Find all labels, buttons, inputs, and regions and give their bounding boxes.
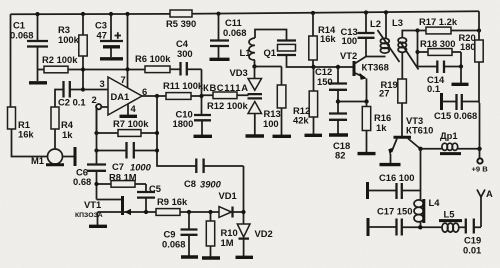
capacitor C7	[94, 142, 159, 173]
resistor R11	[163, 80, 204, 99]
antenna A	[477, 188, 493, 227]
wire pin3	[83, 89, 108, 91]
resistor R7	[94, 118, 159, 136]
capacitor C19	[463, 219, 481, 256]
capacitor C17	[368, 206, 442, 237]
capacitor C2	[55, 81, 86, 108]
capacitor C10	[173, 69, 213, 136]
capacitor C12	[315, 66, 347, 114]
ground C1/R2	[29, 81, 47, 84]
inductor L4	[414, 197, 440, 227]
wire pin7 column	[125, 12, 129, 88]
wire emitter node line	[338, 101, 367, 103]
resistor R5	[166, 10, 196, 29]
microphone M1	[31, 147, 75, 166]
transistor VT1	[75, 196, 156, 219]
capacitor C8	[184, 159, 244, 190]
wire top rail left segment	[11, 13, 171, 15]
resistor R3	[58, 12, 87, 90]
resistor R2	[38, 54, 146, 73]
resistor R19	[379, 79, 406, 136]
diode VD2	[236, 224, 273, 257]
transistor VT3	[380, 115, 434, 165]
resistor R17	[415, 16, 481, 34]
inductor L3	[392, 17, 419, 79]
inductor L5	[439, 209, 466, 233]
wire left border down to R1	[10, 14, 12, 107]
crystal Q1	[264, 41, 314, 68]
resistor R1	[8, 107, 35, 140]
capacitor C4	[176, 38, 202, 76]
wire collector to L4	[420, 149, 422, 200]
resistor R20	[459, 11, 484, 103]
wire R1 to microphone	[12, 129, 48, 157]
diode VD1	[219, 190, 244, 218]
capacitor C15	[434, 93, 479, 121]
resistor R9	[156, 196, 219, 215]
resistor R12 100k	[202, 92, 249, 111]
resistor R14	[309, 11, 337, 67]
capacitor C14	[418, 61, 469, 95]
wire C8/VD1 node	[241, 166, 245, 224]
capacitor C16	[368, 172, 421, 199]
wire L1/Q1 bracket	[255, 30, 287, 41]
resistor R16	[358, 102, 392, 154]
capacitor C11	[210, 12, 247, 60]
inductor L2	[370, 10, 400, 62]
wire top rail right segment	[192, 11, 479, 14]
capacitor C9	[162, 210, 198, 257]
node L1/VD3	[252, 64, 281, 85]
wire base line Q1/R14/C12/VT2	[311, 65, 353, 69]
pin4 bar	[120, 105, 138, 117]
varicap VD3	[203, 67, 264, 137]
wire column output down	[157, 96, 196, 166]
capacitor C6	[73, 107, 106, 200]
inductor L1	[240, 38, 256, 67]
wire collector node	[366, 56, 386, 58]
capacitor C13	[341, 10, 375, 56]
transistor VT2	[340, 50, 389, 104]
resistor R8	[94, 172, 146, 193]
ground C3	[100, 57, 123, 60]
resistor R12 42k	[293, 67, 322, 135]
pin2 circle and wire	[96, 104, 108, 133]
op-amp DA1	[92, 74, 148, 115]
resistor R18	[415, 31, 461, 67]
resistor R6	[135, 53, 180, 73]
capacitor C3 electrolytic	[95, 12, 123, 57]
capacitor C18	[329, 114, 350, 161]
resistor R10	[202, 210, 238, 258]
capacitor C5	[137, 183, 161, 212]
ground VT1	[89, 212, 107, 226]
resistor R4	[51, 107, 74, 149]
capacitor C1	[10, 12, 48, 81]
resistor R13	[263, 85, 291, 136]
supply terminal +9V	[472, 103, 489, 174]
choke Dr1	[418, 130, 479, 154]
wire output pin6	[142, 94, 166, 98]
